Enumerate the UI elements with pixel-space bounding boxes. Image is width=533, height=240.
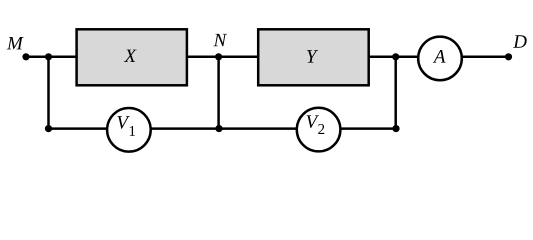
ammeter A <box>418 37 462 81</box>
wire middle vertical branch from N <box>217 57 220 129</box>
wire box X to node N <box>187 56 219 59</box>
wire left junction to box X <box>49 56 78 59</box>
box X (element X) <box>77 29 187 85</box>
wire bottom middle junction to voltmeter V2 <box>219 127 300 130</box>
wire voltmeter V2 to bottom right corner <box>338 127 396 130</box>
node M terminal dot <box>22 53 29 60</box>
label X <box>124 50 137 62</box>
wire voltmeter V1 to bottom middle junction <box>148 127 219 130</box>
wire ammeter A to D terminal <box>461 56 509 59</box>
wire left vertical branch <box>47 57 50 129</box>
voltmeter V1 <box>107 108 151 152</box>
junction bottom left <box>45 125 52 132</box>
junction top left <box>45 53 52 60</box>
voltmeter V2 <box>297 108 341 152</box>
wire box Y to right junction <box>368 56 396 59</box>
junction top right <box>392 53 399 60</box>
wire right vertical branch <box>394 57 397 129</box>
label A <box>433 50 446 63</box>
wire M terminal to left junction <box>26 56 49 59</box>
node D label <box>513 35 527 47</box>
box Y (element Y) <box>258 29 369 85</box>
label Y <box>307 50 318 62</box>
label V2 <box>307 115 319 128</box>
wire right junction to ammeter A <box>396 56 420 59</box>
wire bottom left to voltmeter V1 <box>49 127 111 130</box>
junction bottom middle <box>215 125 222 132</box>
wire node N to box Y <box>219 56 259 59</box>
node M label <box>7 37 24 49</box>
node N label <box>213 34 227 46</box>
junction bottom right <box>392 125 399 132</box>
node N junction dot <box>215 53 222 60</box>
node D terminal dot <box>505 53 512 60</box>
label V1 <box>117 116 129 129</box>
